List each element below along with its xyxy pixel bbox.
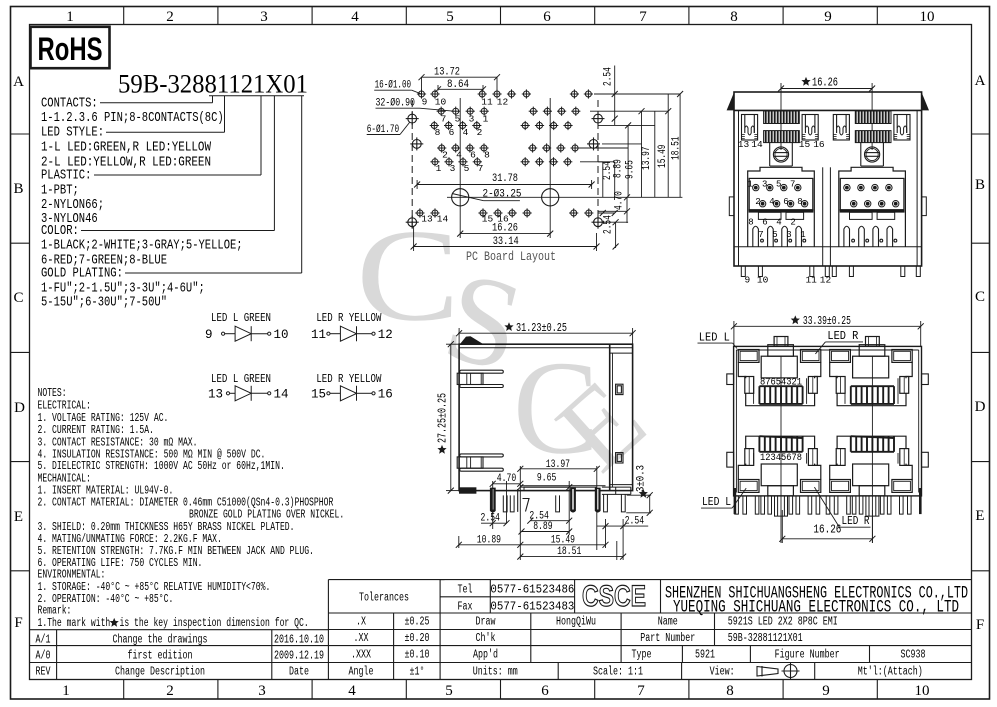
svg-text:Tel: Tel bbox=[458, 584, 473, 597]
svg-text:1. INSERT MATERIAL: UL94V-0.: 1. INSERT MATERIAL: UL94V-0. bbox=[38, 484, 174, 497]
svg-text:F: F bbox=[14, 615, 22, 631]
svg-text:13.72: 13.72 bbox=[434, 67, 460, 79]
svg-text:2.54: 2.54 bbox=[481, 513, 501, 525]
tolerances table bbox=[328, 579, 444, 581]
svg-text:4.70: 4.70 bbox=[497, 473, 516, 485]
svg-text:LED R YELLOW: LED R YELLOW bbox=[316, 372, 382, 386]
svg-text:14: 14 bbox=[437, 214, 449, 225]
svg-text:2009.12.19: 2009.12.19 bbox=[274, 650, 324, 663]
svg-text:Change the drawings: Change the drawings bbox=[113, 634, 208, 647]
svg-text:10: 10 bbox=[920, 9, 935, 25]
svg-text:7: 7 bbox=[478, 163, 484, 174]
LED R YELLOW (bottom, pins 15-16) bbox=[311, 372, 393, 402]
svg-text:3: 3 bbox=[258, 683, 266, 699]
EMI fingers bbox=[742, 115, 758, 141]
svg-text:first edition: first edition bbox=[128, 650, 193, 663]
svg-text:2: 2 bbox=[790, 218, 795, 228]
svg-text:13: 13 bbox=[738, 139, 750, 150]
svg-text:9.65: 9.65 bbox=[625, 160, 637, 179]
svg-text:Type: Type bbox=[632, 649, 652, 662]
svg-text:6-Ø1.70: 6-Ø1.70 bbox=[367, 124, 400, 136]
svg-text:LED R YELLOW: LED R YELLOW bbox=[316, 311, 382, 325]
svg-text:.XX: .XX bbox=[354, 632, 369, 645]
svg-text:Part Number: Part Number bbox=[640, 632, 695, 645]
svg-text:2: 2 bbox=[477, 127, 483, 138]
LED labels bbox=[698, 342, 873, 543]
svg-text:33.39±0.25: 33.39±0.25 bbox=[803, 315, 851, 328]
CSCE logo bbox=[582, 580, 646, 613]
svg-text:2: 2 bbox=[166, 683, 174, 699]
svg-text:33.14: 33.14 bbox=[493, 236, 519, 248]
svg-text:F: F bbox=[976, 617, 984, 633]
PC board layout: dashed centerlines bbox=[412, 100, 598, 231]
svg-text:1: 1 bbox=[747, 180, 752, 190]
svg-text:3±0.3: 3±0.3 bbox=[636, 465, 648, 492]
svg-text:D: D bbox=[14, 400, 25, 416]
open pins bbox=[503, 494, 625, 512]
dim 33.39 bbox=[734, 321, 921, 346]
svg-text:10: 10 bbox=[757, 275, 769, 286]
svg-text:2. CURRENT RATING: 1.5A.: 2. CURRENT RATING: 1.5A. bbox=[38, 424, 154, 437]
svg-text:6: 6 bbox=[543, 9, 551, 25]
svg-text:1-FU″;2-1.5U″;3-3U″;4-6U″;: 1-FU″;2-1.5U″;3-3U″;4-6U″; bbox=[41, 282, 205, 297]
svg-text:Tolerances: Tolerances bbox=[359, 592, 409, 605]
6 holes O1.70 bbox=[406, 112, 605, 229]
svg-text:31.23±0.25: 31.23±0.25 bbox=[516, 322, 567, 335]
svg-text:LED L GREEN: LED L GREEN bbox=[211, 372, 271, 386]
svg-text:16: 16 bbox=[378, 388, 393, 402]
svg-text:7: 7 bbox=[758, 230, 763, 240]
svg-text:ELECTRICAL:: ELECTRICAL: bbox=[38, 400, 91, 413]
svg-text:A: A bbox=[975, 73, 986, 89]
LED L GREEN (bottom, pins 13-14) bbox=[208, 372, 289, 402]
svg-text:3: 3 bbox=[469, 114, 475, 125]
svg-text:16.26: 16.26 bbox=[492, 223, 518, 235]
svg-text:11: 11 bbox=[311, 328, 326, 342]
last row bbox=[557, 663, 559, 680]
svg-text:E: E bbox=[14, 509, 23, 525]
svg-text:6: 6 bbox=[449, 127, 455, 138]
svg-text:3: 3 bbox=[762, 180, 767, 190]
svg-text:HongQiWu: HongQiWu bbox=[556, 616, 596, 629]
svg-text:ENVIRONMENTAL:: ENVIRONMENTAL: bbox=[38, 569, 106, 582]
svg-text:.XXX: .XXX bbox=[351, 649, 371, 662]
dim 27.25 left bbox=[446, 344, 459, 490]
svg-text:7: 7 bbox=[637, 683, 645, 699]
svg-text:1.The mark with: 1.The mark with bbox=[38, 617, 111, 630]
svg-text:Scale: 1:1: Scale: 1:1 bbox=[593, 666, 643, 679]
svg-text:Figure Number: Figure Number bbox=[775, 649, 840, 662]
svg-text:NOTES:: NOTES: bbox=[38, 387, 67, 400]
svg-text:2: 2 bbox=[166, 9, 174, 25]
svg-text:8.89: 8.89 bbox=[613, 159, 625, 178]
svg-text:16.26: 16.26 bbox=[812, 77, 838, 90]
svg-text:Remark:: Remark: bbox=[38, 605, 72, 618]
ports bbox=[738, 345, 821, 406]
svg-text:±0.25: ±0.25 bbox=[405, 616, 430, 629]
leader underline bbox=[81, 96, 304, 273]
svg-text:LED R: LED R bbox=[827, 330, 858, 343]
svg-text:5: 5 bbox=[445, 683, 453, 699]
svg-text:1: 1 bbox=[436, 163, 442, 174]
Tel/Fax + CSCE + company bbox=[440, 579, 971, 581]
contact combs bbox=[764, 111, 800, 124]
latches bbox=[457, 370, 503, 387]
svg-text:16-Ø1.00: 16-Ø1.00 bbox=[375, 80, 412, 92]
svg-text:MECHANICAL:: MECHANICAL: bbox=[38, 472, 91, 485]
LED R YELLOW (top, pins 11-12) bbox=[311, 311, 393, 342]
svg-text:±0.10: ±0.10 bbox=[405, 649, 430, 662]
svg-text:COLOR:: COLOR: bbox=[41, 224, 79, 239]
svg-text:RoHS: RoHS bbox=[38, 31, 103, 67]
svg-text:10.89: 10.89 bbox=[477, 534, 501, 546]
svg-text:Fax: Fax bbox=[458, 601, 473, 614]
svg-text:13.97: 13.97 bbox=[641, 147, 653, 171]
svg-text:8: 8 bbox=[435, 127, 441, 138]
svg-text:0577-61523486: 0577-61523486 bbox=[490, 584, 574, 597]
shield body bbox=[734, 92, 922, 266]
svg-text:59B-32881121X01: 59B-32881121X01 bbox=[728, 632, 803, 645]
svg-text:9.65: 9.65 bbox=[537, 472, 556, 484]
svg-text:4: 4 bbox=[348, 683, 356, 699]
svg-text:3: 3 bbox=[450, 163, 456, 174]
svg-text:4. MATING/UNMATING FORCE: 2.2K: 4. MATING/UNMATING FORCE: 2.2KG.F MAX. bbox=[38, 533, 222, 546]
dim 31.23 bbox=[458, 328, 633, 344]
svg-text:LED L GREEN: LED L GREEN bbox=[211, 311, 271, 325]
svg-text:.X: .X bbox=[356, 616, 366, 629]
svg-text:11: 11 bbox=[481, 97, 493, 108]
svg-text:5. RETENTION STRENGTH: 7.7KG.F: 5. RETENTION STRENGTH: 7.7KG.F MIN BETWE… bbox=[38, 545, 314, 558]
svg-text:4.70: 4.70 bbox=[614, 191, 626, 210]
dims bbox=[459, 466, 651, 560]
svg-text:6: 6 bbox=[541, 683, 549, 699]
svg-text:2-NYLON66;: 2-NYLON66; bbox=[41, 198, 104, 213]
dimensions bbox=[367, 66, 680, 252]
svg-text:1-PBT;: 1-PBT; bbox=[41, 184, 79, 199]
svg-text:BRONZE GOLD PLATING OVER NICKE: BRONZE GOLD PLATING OVER NICKEL. bbox=[189, 509, 344, 522]
svg-text:10: 10 bbox=[435, 97, 447, 108]
solder pads 32-O0.90 / 16-O1.00 bbox=[415, 89, 593, 217]
svg-text:4: 4 bbox=[769, 197, 774, 207]
svg-text:5: 5 bbox=[772, 230, 777, 240]
svg-text:3: 3 bbox=[786, 230, 791, 240]
svg-text:View:: View: bbox=[710, 666, 735, 679]
svg-text:Mt'l:(Attach): Mt'l:(Attach) bbox=[858, 666, 923, 679]
svg-text:6: 6 bbox=[470, 150, 476, 161]
svg-text:5: 5 bbox=[455, 114, 461, 125]
svg-text:is the key inspection dimensio: is the key inspection dimension for QC. bbox=[120, 617, 309, 630]
svg-text:Angle: Angle bbox=[349, 666, 374, 679]
svg-text:8.64: 8.64 bbox=[447, 79, 469, 91]
svg-text:1. STORAGE: -40°C ~ +85°C RELA: 1. STORAGE: -40°C ~ +85°C RELATIVE HUMID… bbox=[38, 581, 271, 594]
svg-text:27.25±0.25: 27.25±0.25 bbox=[437, 393, 450, 443]
svg-text:1: 1 bbox=[800, 230, 805, 240]
svg-text:9: 9 bbox=[822, 683, 830, 699]
svg-text:9: 9 bbox=[824, 9, 832, 25]
svg-text:1: 1 bbox=[483, 114, 489, 125]
svg-text:10: 10 bbox=[274, 328, 289, 342]
bottom feet bbox=[741, 266, 920, 277]
svg-text:5: 5 bbox=[446, 9, 454, 25]
svg-text:2.54: 2.54 bbox=[603, 215, 615, 234]
LED L GREEN (top, pins 9-10) bbox=[205, 311, 289, 342]
svg-text:5: 5 bbox=[776, 180, 781, 190]
2 holes O3.25 bbox=[447, 189, 682, 206]
svg-text:Ch'k: Ch'k bbox=[476, 632, 496, 645]
svg-text:7: 7 bbox=[441, 114, 447, 125]
svg-text:±0.20: ±0.20 bbox=[405, 632, 430, 645]
svg-text:2-Ø3.25: 2-Ø3.25 bbox=[483, 189, 522, 201]
svg-text:13: 13 bbox=[208, 388, 223, 402]
svg-text:7: 7 bbox=[790, 180, 795, 190]
svg-text:0577-61523483: 0577-61523483 bbox=[490, 601, 574, 614]
svg-text:SC938: SC938 bbox=[901, 649, 926, 662]
svg-text:2.54: 2.54 bbox=[603, 67, 615, 86]
svg-text:16.26: 16.26 bbox=[813, 523, 841, 536]
svg-text:8: 8 bbox=[730, 9, 738, 25]
svg-text:4: 4 bbox=[776, 218, 781, 228]
svg-text:1: 1 bbox=[66, 9, 74, 25]
svg-text:8.89: 8.89 bbox=[533, 521, 552, 533]
svg-text:59B-32881121X01: 59B-32881121X01 bbox=[118, 69, 308, 99]
svg-text:7: 7 bbox=[639, 9, 647, 25]
svg-text:2.54: 2.54 bbox=[602, 161, 614, 180]
svg-text:PLASTIC:: PLASTIC: bbox=[41, 169, 91, 184]
svg-text:4: 4 bbox=[351, 9, 359, 25]
dim 16.26 top bbox=[781, 83, 872, 150]
placeholder groups for drawings bbox=[367, 66, 683, 265]
body bbox=[459, 344, 632, 490]
svg-text:15: 15 bbox=[799, 139, 811, 150]
svg-text:8: 8 bbox=[748, 218, 753, 228]
footprint centerlines bbox=[460, 98, 550, 206]
svg-text:13.97: 13.97 bbox=[546, 459, 570, 471]
svg-text:±1°: ±1° bbox=[410, 666, 425, 679]
svg-text:8: 8 bbox=[797, 197, 802, 207]
svg-text:14: 14 bbox=[274, 388, 289, 402]
svg-text:REV: REV bbox=[36, 666, 51, 679]
svg-text:15.49: 15.49 bbox=[551, 534, 575, 546]
svg-text:B: B bbox=[13, 181, 23, 197]
svg-text:6: 6 bbox=[783, 197, 788, 207]
jack cavities bbox=[748, 167, 815, 246]
svg-text:13: 13 bbox=[421, 214, 433, 225]
svg-text:GOLD PLATING:: GOLD PLATING: bbox=[41, 267, 123, 282]
svg-text:App'd: App'd bbox=[473, 649, 498, 662]
svg-text:CONTACTS:: CONTACTS: bbox=[41, 97, 98, 112]
svg-text:LED STYLE:: LED STYLE: bbox=[41, 126, 104, 141]
svg-text:12: 12 bbox=[820, 275, 832, 286]
svg-text:PC Board Layout: PC Board Layout bbox=[466, 250, 556, 264]
screws bbox=[770, 143, 793, 166]
pad numbers bbox=[421, 97, 509, 225]
svg-text:1: 1 bbox=[62, 683, 70, 699]
svg-text:Date: Date bbox=[289, 666, 309, 679]
rows right part bbox=[530, 613, 532, 663]
svg-text:9: 9 bbox=[205, 328, 213, 342]
bottom pins bbox=[735, 496, 911, 516]
svg-text:1-1.2.3.6 PIN;8-8CONTACTS(8C): 1-1.2.3.6 PIN;8-8CONTACTS(8C) bbox=[41, 111, 224, 126]
svg-text:B: B bbox=[975, 177, 985, 193]
LED pins (black) bbox=[490, 488, 496, 513]
svg-text:C: C bbox=[975, 289, 985, 305]
svg-text:9: 9 bbox=[745, 275, 751, 286]
svg-text:10: 10 bbox=[915, 683, 930, 699]
svg-text:2. CONTACT MATERIAL: DIAMETER: 2. CONTACT MATERIAL: DIAMETER 0.46mm C51… bbox=[38, 497, 334, 510]
svg-text:15.49: 15.49 bbox=[657, 145, 669, 169]
svg-text:31.78: 31.78 bbox=[492, 173, 518, 185]
company names bbox=[665, 584, 968, 618]
svg-text:5: 5 bbox=[464, 163, 470, 174]
revision table bbox=[30, 629, 329, 631]
svg-text:32-Ø0.90: 32-Ø0.90 bbox=[376, 97, 416, 109]
svg-text:11: 11 bbox=[805, 275, 817, 286]
svg-text:C: C bbox=[13, 290, 23, 306]
svg-text:12: 12 bbox=[497, 97, 509, 108]
svg-text:Change Description: Change Description bbox=[115, 666, 205, 679]
svg-text:5921: 5921 bbox=[695, 649, 715, 662]
svg-text:18.51: 18.51 bbox=[671, 136, 683, 160]
svg-text:1-BLACK;2-WHITE;3-GRAY;5-YELLO: 1-BLACK;2-WHITE;3-GRAY;5-YELLOE; bbox=[41, 239, 243, 254]
svg-text:15: 15 bbox=[311, 388, 326, 402]
svg-text:A/0: A/0 bbox=[36, 650, 51, 663]
svg-text:8: 8 bbox=[726, 683, 734, 699]
svg-text:16: 16 bbox=[813, 139, 825, 150]
svg-text:A/1: A/1 bbox=[36, 634, 51, 647]
svg-text:4: 4 bbox=[463, 127, 469, 138]
svg-text:LED R: LED R bbox=[842, 515, 870, 528]
svg-text:YUEQING SHICHUANG ELECTRONICS: YUEQING SHICHUANG ELECTRONICS CO., LTD bbox=[673, 598, 959, 618]
svg-text:2016.10.10: 2016.10.10 bbox=[274, 634, 324, 647]
svg-text:D: D bbox=[975, 399, 986, 415]
svg-text:8: 8 bbox=[484, 150, 490, 161]
svg-text:A: A bbox=[13, 74, 24, 90]
svg-text:3: 3 bbox=[260, 9, 268, 25]
svg-text:2: 2 bbox=[442, 150, 448, 161]
svg-text:2: 2 bbox=[755, 197, 760, 207]
svg-text:4: 4 bbox=[456, 150, 462, 161]
svg-text:Draw: Draw bbox=[476, 616, 496, 629]
svg-text:2.54: 2.54 bbox=[625, 516, 645, 528]
svg-text:E: E bbox=[975, 508, 984, 524]
svg-text:6: 6 bbox=[762, 218, 767, 228]
svg-text:5-15U″;6-30U″;7-50U″: 5-15U″;6-30U″;7-50U″ bbox=[41, 296, 167, 311]
svg-text:LED L: LED L bbox=[702, 496, 731, 509]
svg-text:1-L LED:GREEN,R LED:YELLOW: 1-L LED:GREEN,R LED:YELLOW bbox=[41, 141, 212, 156]
svg-text:5. DIELECTRIC STRENGTH: 1000V: 5. DIELECTRIC STRENGTH: 1000V AC 50Hz or… bbox=[38, 460, 285, 473]
svg-text:14: 14 bbox=[751, 139, 763, 150]
svg-text:LED L: LED L bbox=[699, 332, 730, 345]
view symbol (third angle): cone + circle bbox=[757, 662, 800, 680]
svg-text:18.51: 18.51 bbox=[557, 546, 582, 558]
svg-text:CSCE: CSCE bbox=[582, 580, 646, 613]
svg-text:9: 9 bbox=[422, 97, 428, 108]
svg-text:12: 12 bbox=[378, 328, 393, 342]
svg-text:3. SHIELD: 0.20mm THICKNESS H6: 3. SHIELD: 0.20mm THICKNESS H65Y BRASS N… bbox=[38, 521, 295, 534]
svg-text:Units: mm: Units: mm bbox=[473, 666, 518, 679]
svg-text:3. CONTACT RESISTANCE: 30 mΩ M: 3. CONTACT RESISTANCE: 30 mΩ MAX. bbox=[38, 436, 198, 449]
body outline bbox=[734, 346, 922, 496]
